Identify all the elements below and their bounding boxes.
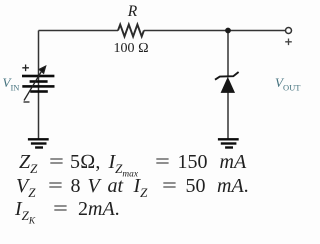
equation line 2 token IZ: [134, 176, 148, 199]
wire zener branch lower: [227, 92, 229, 139]
equation line 1 token ZZ: [19, 152, 37, 175]
equation line 3 token =: [53, 199, 68, 219]
equation line 2 token =: [48, 176, 63, 196]
node junction (top of zener branch): [225, 28, 231, 34]
equation line 3 token IZK: [15, 199, 35, 227]
equation line 1 token =: [49, 152, 64, 172]
battery VIN plate 4 (short): [30, 90, 48, 93]
resistor R: [118, 25, 144, 37]
label VOUT: [275, 76, 300, 92]
equation line 1 token =: [155, 152, 170, 172]
battery VIN plate 2 (short): [30, 80, 48, 83]
zener diode triangle (anode): [221, 78, 234, 93]
equation line 2 token mA.: [217, 176, 249, 196]
equation line 1 token 5 ohm comma: [70, 152, 100, 172]
equation line 2 token at: [108, 176, 124, 196]
equation line 1 token IZmax: [109, 152, 138, 180]
equation line 2 token 50: [186, 176, 206, 196]
equation line 2 token =: [162, 176, 177, 196]
equation line 2 token VZ: [16, 176, 35, 199]
polarity - at battery: [24, 101, 30, 103]
variable-source arrow through battery: [24, 66, 46, 100]
equation line 1 token mA: [220, 152, 247, 172]
polarity + at battery: [22, 65, 29, 72]
polarity + at output terminal: [285, 39, 292, 46]
ground symbol middle (zener return): [218, 138, 239, 149]
terminal VOUT open circle: [286, 28, 292, 34]
wire zener branch upper: [227, 31, 229, 78]
equation line 3 token 2mA.: [78, 199, 120, 219]
wire left vertical (VIN branch): [38, 31, 40, 140]
label R: [128, 4, 137, 20]
label VIN: [3, 76, 20, 92]
battery VIN plate 3 (long): [22, 85, 54, 88]
wire top rail left segment: [39, 30, 119, 32]
zener diode bar (cathode): [215, 72, 239, 80]
equation line 1 token 150: [178, 152, 208, 172]
equation line 2 token 8: [71, 176, 81, 196]
ground symbol left (battery return): [28, 138, 49, 149]
equation line 2 token V: [88, 176, 100, 196]
value label 100 ohm: [114, 42, 149, 56]
battery VIN plate 1 (long): [22, 75, 54, 78]
wire top rail right segment: [144, 30, 286, 32]
